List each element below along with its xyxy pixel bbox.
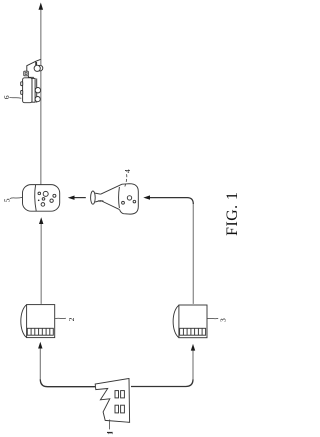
svg-text:3: 3 bbox=[219, 318, 228, 322]
plant 2 window band bbox=[27, 328, 53, 335]
flask 4 bbox=[91, 184, 139, 214]
label 3 leader bbox=[207, 317, 218, 319]
wire: arrow from plant 2 up into vessel 5 bbox=[40, 224, 42, 304]
label 4 leader (dash-dot) bbox=[125, 174, 127, 187]
svg-text:FIG. 1: FIG. 1 bbox=[224, 192, 240, 236]
plant 2 arched face bbox=[21, 305, 27, 338]
flask thread marks bbox=[98, 200, 104, 203]
truck 6 bbox=[21, 59, 43, 102]
flask bottom ellipse edge bbox=[118, 187, 121, 208]
plant 2 body bbox=[27, 305, 55, 338]
plant 3 window band bbox=[180, 328, 206, 335]
truck front wheel bbox=[34, 65, 40, 71]
vessel 5 bbox=[23, 185, 60, 212]
vessel inner dividing curve bbox=[35, 185, 36, 211]
truck chassis bbox=[32, 78, 35, 102]
truck frame line bbox=[36, 79, 38, 103]
plant 3 body bbox=[179, 305, 207, 338]
wire: arrow from flask 4 into vessel 5 bbox=[74, 197, 86, 199]
label 6 leader bbox=[9, 96, 21, 99]
truck roof tab 1 bbox=[21, 82, 23, 86]
factory window r2c1 bbox=[115, 405, 119, 413]
factory window r2c2 bbox=[121, 405, 125, 413]
factory window r1c2 bbox=[121, 391, 125, 398]
flask neck lines bbox=[95, 193, 101, 202]
wire: long vertical output line from vessel 5 to top bbox=[40, 10, 42, 185]
flask cone bbox=[101, 184, 122, 209]
truck rear wheel 2 bbox=[35, 97, 40, 102]
flask neck lip bbox=[91, 191, 96, 204]
label 2 leader bbox=[55, 317, 66, 319]
flask bubbles bbox=[122, 201, 125, 204]
wire: from plant 3 up and left into flask 4 bbox=[192, 204, 194, 304]
plant 3 bbox=[173, 305, 207, 338]
svg-text:2: 2 bbox=[67, 317, 76, 321]
wire: factory to plant 2 (left loop) bbox=[40, 379, 95, 386]
label 1 leader bbox=[109, 420, 111, 430]
truck rear wheel 1 bbox=[35, 88, 40, 93]
truck mirror box bbox=[24, 71, 29, 76]
truck front wheel outer bbox=[37, 65, 43, 71]
wire: factory to plant 3 (right loop) bbox=[131, 379, 193, 386]
truck cab outline bbox=[27, 59, 41, 71]
factory 1 bbox=[95, 379, 129, 423]
arrowhead at top of output line bbox=[39, 3, 44, 10]
plant 3 arched face bbox=[173, 305, 179, 337]
plant 2 bbox=[21, 305, 55, 338]
flask base bbox=[120, 184, 139, 214]
bubbles bbox=[38, 192, 41, 195]
label 5 leader bbox=[10, 197, 23, 198]
svg-text:4: 4 bbox=[123, 169, 132, 173]
factory outline with sawtooth roof bbox=[95, 379, 129, 423]
svg-text:5: 5 bbox=[2, 198, 11, 202]
truck trailer box bbox=[23, 78, 32, 103]
svg-text:6: 6 bbox=[2, 95, 11, 99]
factory window r1c1 bbox=[115, 391, 119, 398]
truck roof tab 2 bbox=[21, 91, 23, 95]
